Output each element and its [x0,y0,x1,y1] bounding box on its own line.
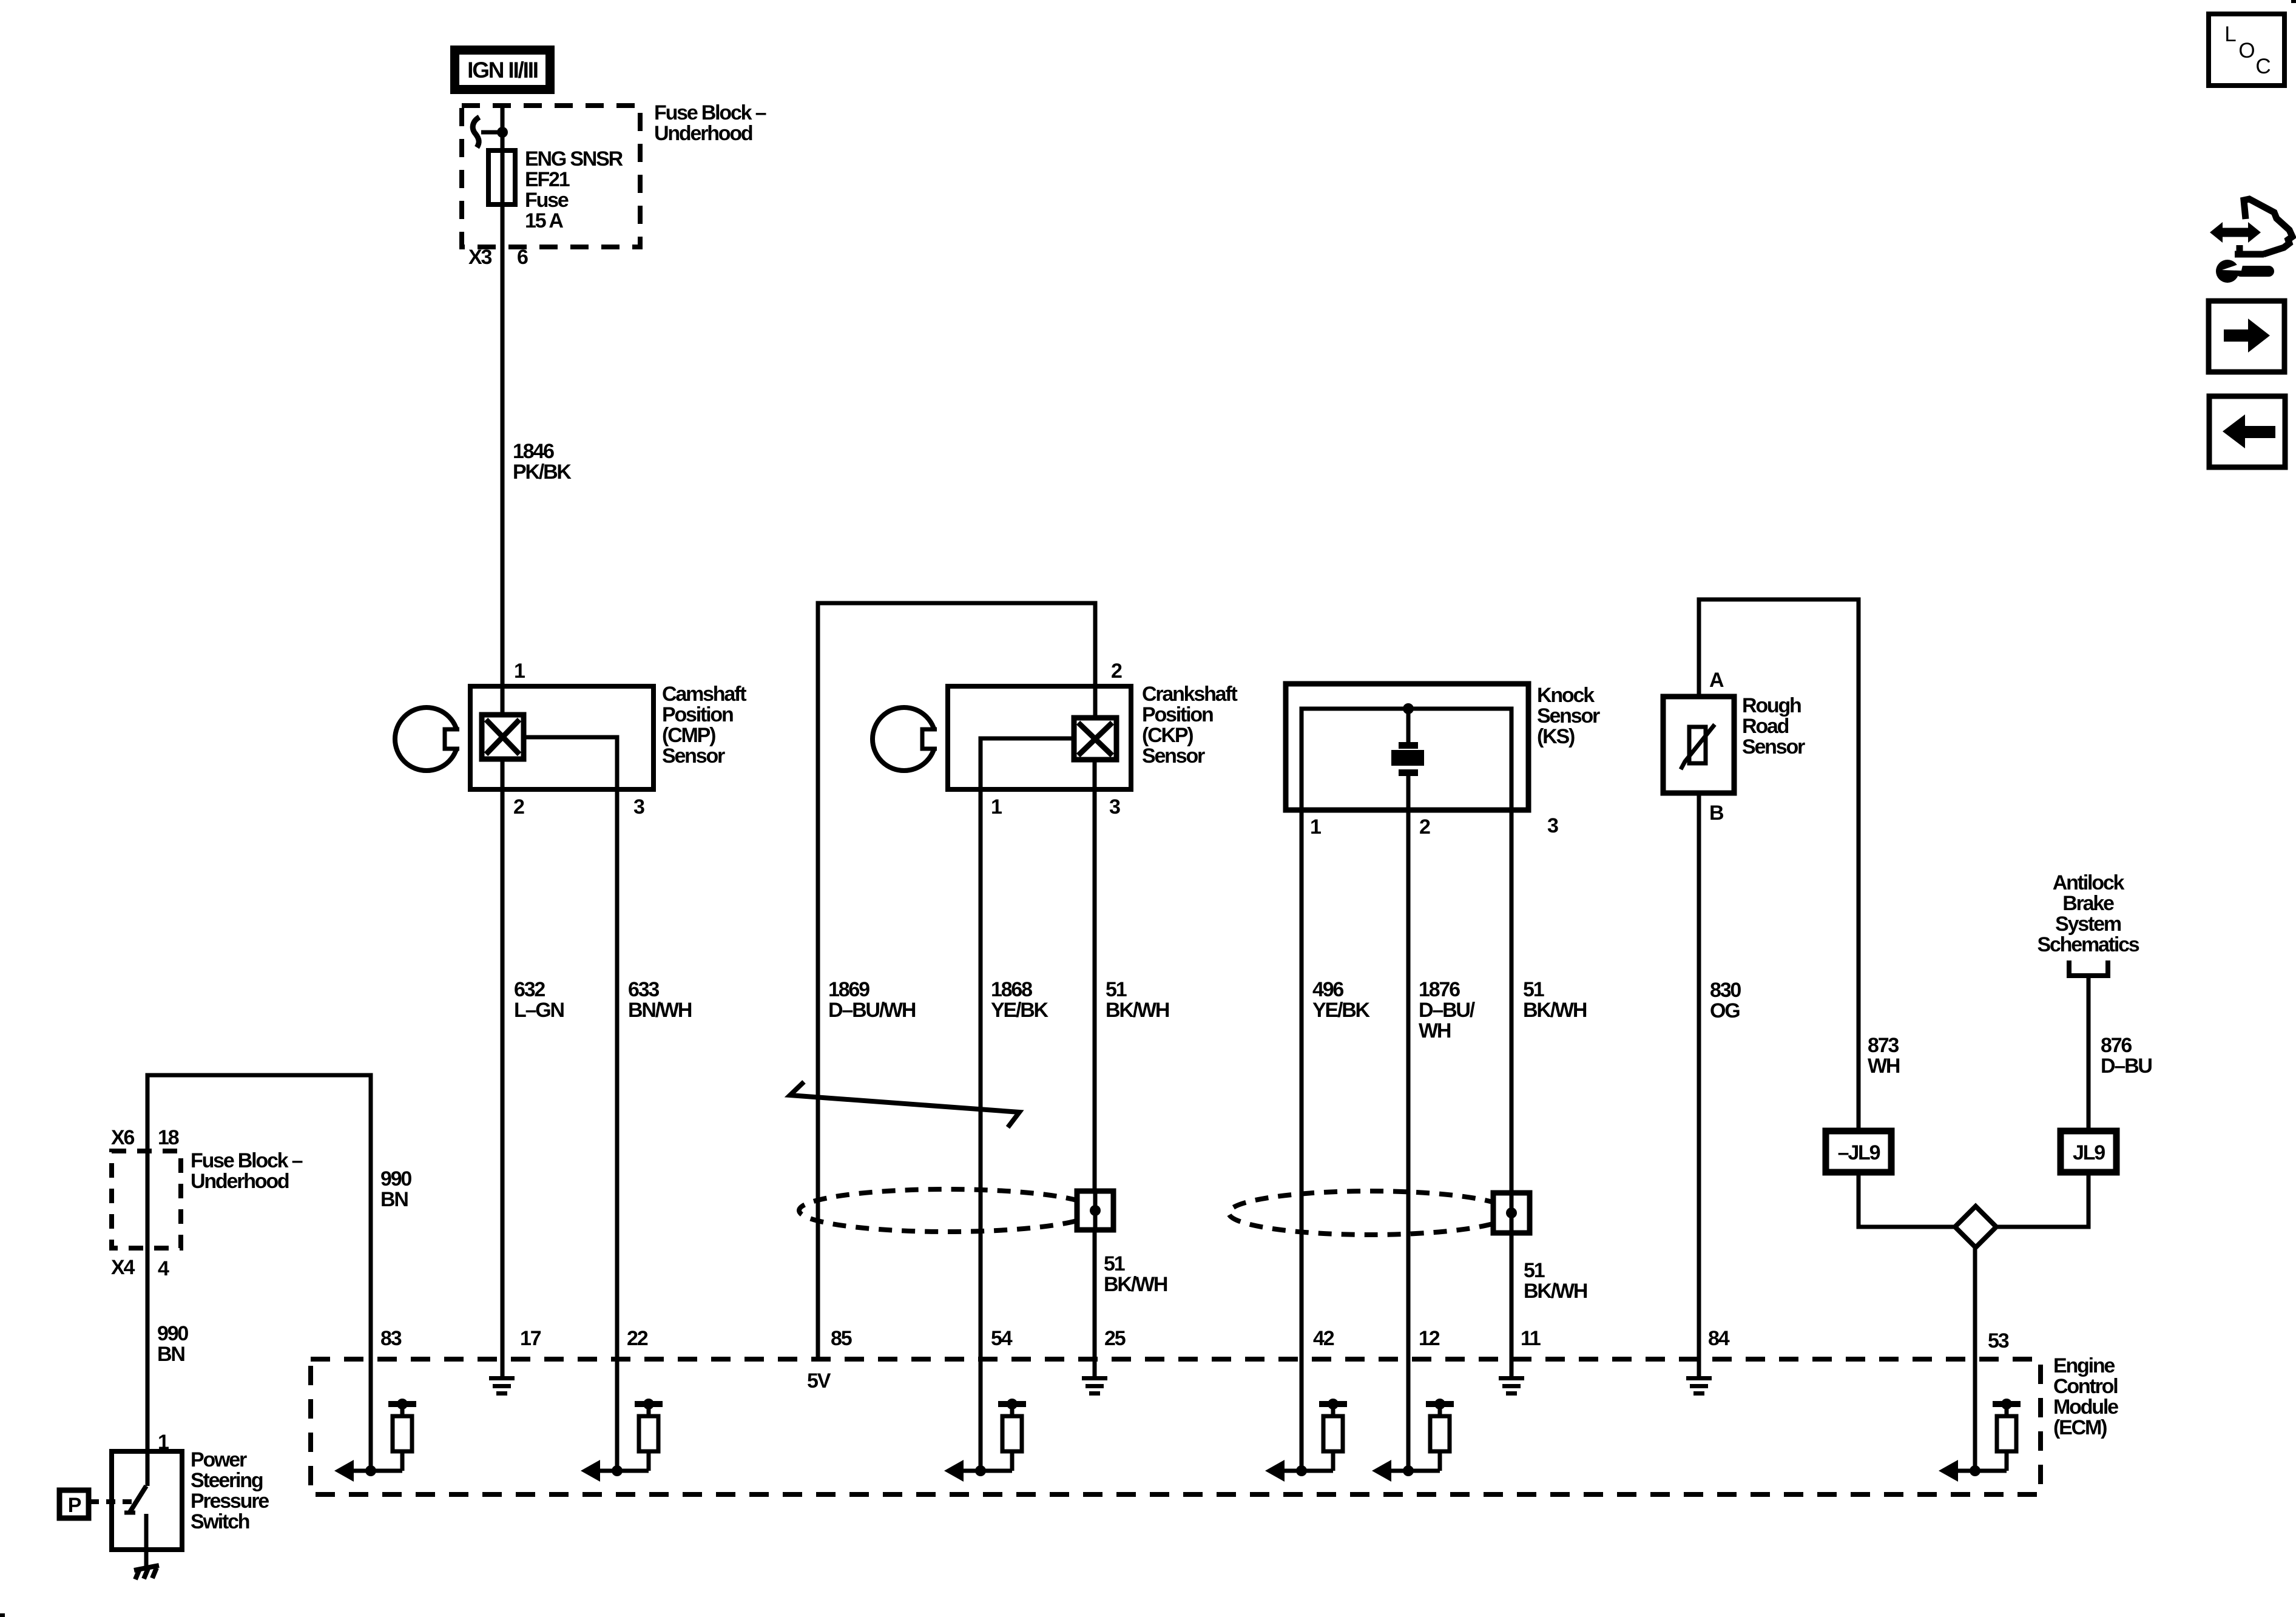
svg-text:Fuse Block –: Fuse Block – [654,101,766,124]
svg-text:51: 51 [1524,1259,1545,1282]
ECM input cell pin 83 [334,1399,416,1482]
option box -JL9 [1826,1131,1891,1172]
knock sensor box [1286,684,1528,810]
wire 51 BK/WH : CKP pin 3 to ECM 25 [1093,760,1097,1377]
svg-text:X4: X4 [111,1256,135,1279]
svg-text:IGN II/III: IGN II/III [467,58,538,83]
svg-text:EF21: EF21 [525,168,570,191]
svg-text:83: 83 [380,1327,402,1350]
svg-text:ENG SNSR: ENG SNSR [525,147,623,170]
svg-text:2: 2 [1111,660,1122,683]
wire below JL9 to diamond splice [1995,1172,2088,1227]
CMP pickup coil X-box [482,715,524,759]
svg-text:JL9: JL9 [2073,1141,2105,1164]
svg-text:YE/BK: YE/BK [1312,999,1371,1022]
shield drain box on 51 BK/WH (KS) [1493,1193,1530,1233]
svg-text:Sensor: Sensor [1537,704,1600,727]
svg-text:–JL9: –JL9 [1838,1141,1880,1164]
ECM input cell pin 12 [1372,1399,1454,1482]
svg-text:3: 3 [633,795,644,819]
shield drain box on 51 BK/WH [1077,1191,1113,1230]
LOC navigation box [2209,14,2284,86]
wire 876 D-BU : off-page connector to JL9 [2087,978,2091,1131]
svg-text:Antilock: Antilock [2053,871,2125,894]
wire 632 L-GN : CMP pin 2 to ECM 17 [501,759,505,1377]
forward arrow box [2209,301,2284,372]
diamond splice [1955,1206,1996,1247]
svg-text:17: 17 [520,1327,541,1350]
corner mark [2291,0,2296,3]
svg-text:1868: 1868 [991,978,1032,1001]
svg-text:BK/WH: BK/WH [1524,1280,1587,1303]
bus tap curl [473,117,479,147]
svg-text:WH: WH [1419,1019,1451,1042]
svg-text:Sensor: Sensor [1142,744,1205,768]
fuse block underhood dashed box (top) [462,106,640,247]
svg-text:15 A: 15 A [525,209,563,232]
switch blade [130,1486,146,1512]
fuse ENG SNSR EF21 [488,150,515,204]
wire diamond to ECM 53 [1973,1244,1977,1471]
piezo element [1391,703,1424,776]
wire below -JL9 to diamond splice [1859,1172,1956,1227]
svg-text:53: 53 [1988,1329,2009,1352]
svg-text:Underhood: Underhood [654,122,752,145]
svg-text:1846: 1846 [513,440,554,463]
engine control module dashed box [311,1359,2041,1494]
ECM input cell pin 22 [581,1399,663,1482]
svg-text:990: 990 [380,1167,411,1190]
ECM input cell pin 53 [1939,1399,2021,1482]
svg-text:830: 830 [1710,979,1741,1002]
shield ellipse around KS wires [1229,1191,1511,1235]
svg-text:1876: 1876 [1419,978,1460,1001]
svg-text:System: System [2055,913,2121,936]
wire 1869 D-BU/WH : CKP pin 2 loop to ECM 85 [818,603,1095,1359]
svg-text:633: 633 [628,978,659,1001]
svg-text:Brake: Brake [2062,892,2114,915]
svg-text:2: 2 [1419,815,1430,839]
svg-text:632: 632 [514,978,545,1001]
ECM ground pin 17 [489,1376,515,1396]
ECM ground pin 11 [1499,1376,1524,1396]
svg-text:1869: 1869 [828,978,869,1001]
svg-text:Camshaft: Camshaft [662,683,746,706]
camshaft position sensor box [470,686,653,789]
svg-text:85: 85 [831,1327,852,1350]
P actuator box [59,1490,89,1518]
svg-text:11: 11 [1521,1327,1541,1350]
svg-text:3: 3 [1109,795,1120,819]
svg-text:D–BU/WH: D–BU/WH [828,999,916,1022]
svg-text:84: 84 [1708,1327,1730,1350]
svg-text:1: 1 [991,795,1002,819]
svg-text:Sensor: Sensor [662,744,725,768]
svg-text:873: 873 [1868,1034,1899,1057]
shield ellipse around CKP wires [799,1189,1095,1232]
svg-text:BK/WH: BK/WH [1523,999,1587,1022]
power steering pressure switch box [112,1451,182,1550]
svg-text:(CKP): (CKP) [1142,724,1193,747]
svg-text:496: 496 [1312,978,1343,1001]
wire 633 BN/WH : CMP pin 3 to ECM 22 [524,737,617,1471]
svg-text:Engine: Engine [2053,1354,2115,1377]
wire 990 BN loop : switch pin 1 up over to ECM 83 [147,1075,371,1486]
wire 1868 YE/BK : CKP pin 1 to ECM 54 [981,738,1074,1471]
svg-text:(CMP): (CMP) [662,724,715,747]
svg-text:18: 18 [158,1126,179,1149]
option box JL9 [2061,1131,2116,1172]
svg-text:51: 51 [1104,1252,1125,1275]
svg-text:Steering: Steering [191,1469,263,1492]
svg-text:876: 876 [2101,1034,2132,1057]
back arrow box [2209,396,2285,467]
crankshaft position sensor box [948,686,1131,789]
dashed actuator line [90,1499,135,1504]
wire 873 WH : rough road sensor A loop to -JL9 [1699,599,1859,1131]
svg-text:12: 12 [1419,1327,1440,1350]
svg-text:(KS): (KS) [1537,725,1575,748]
CKP pickup coil X-box [1074,718,1116,760]
svg-text:Fuse Block –: Fuse Block – [191,1149,303,1172]
ECM input cell pin 42 [1265,1399,1347,1482]
junction dot [497,127,508,138]
svg-text:51: 51 [1523,978,1544,1001]
svg-text:X3: X3 [468,246,491,269]
svg-text:54: 54 [991,1327,1013,1350]
wire 1846 PK/BK : fuse to CMP pin 1 [501,103,505,715]
svg-text:BK/WH: BK/WH [1106,999,1169,1022]
off-page connector bracket [2069,960,2108,976]
svg-text:990: 990 [157,1322,188,1345]
svg-text:51: 51 [1106,978,1127,1001]
svg-text:O: O [2238,39,2255,62]
svg-text:4: 4 [158,1257,169,1280]
svg-text:Power: Power [191,1448,247,1471]
svg-text:Position: Position [1142,703,1213,726]
svg-text:X6: X6 [111,1126,134,1149]
ECM input cell pin 54 [944,1399,1026,1482]
page corner mark bottom-left [0,1613,5,1617]
svg-text:Road: Road [1742,715,1789,738]
svg-text:YE/BK: YE/BK [991,999,1049,1022]
svg-text:Switch: Switch [191,1510,249,1533]
svg-text:3: 3 [1547,814,1558,837]
svg-text:BN: BN [380,1188,408,1211]
svg-text:Pressure: Pressure [191,1490,269,1513]
svg-text:Sensor: Sensor [1742,735,1805,758]
svg-text:OG: OG [1710,999,1740,1022]
svg-text:PK/BK: PK/BK [513,461,572,484]
wire 830 OG : rough road sensor B to ECM 84 [1697,793,1701,1377]
svg-text:1: 1 [514,660,525,683]
svg-text:Fuse: Fuse [525,189,569,212]
ECM ground pin 25 [1082,1376,1107,1396]
diagnostic icon : car outline with double arrow and wrench [2210,199,2292,283]
svg-text:Underhood: Underhood [191,1170,289,1193]
svg-text:1: 1 [1310,815,1321,839]
ECM ground pin 84 [1686,1376,1712,1396]
svg-text:Rough: Rough [1742,694,1801,717]
svg-text:22: 22 [627,1327,648,1350]
svg-text:D–BU/: D–BU/ [1419,999,1476,1022]
chassis ground [134,1565,159,1579]
svg-text:2: 2 [513,795,524,819]
rough road sensor box [1663,697,1734,793]
svg-text:42: 42 [1313,1327,1334,1350]
svg-text:Position: Position [662,703,733,726]
svg-text:L: L [2224,22,2236,46]
CMP reluctor circle [395,707,458,771]
svg-text:5V: 5V [807,1369,831,1393]
svg-text:WH: WH [1868,1055,1900,1078]
variable resistor symbol [1689,727,1706,763]
knock sensor internal loop + wires 496 and 51 [1302,709,1511,1471]
svg-text:6: 6 [517,246,528,269]
svg-text:A: A [1709,669,1724,692]
svg-text:(ECM): (ECM) [2053,1416,2107,1439]
svg-text:Control: Control [2053,1375,2118,1398]
switch bottom contact stub [144,1514,149,1566]
svg-text:P: P [68,1494,81,1517]
svg-text:L–GN: L–GN [514,999,564,1022]
wire 1876 D-BU/WH : KS pin 2 to ECM 12 [1406,709,1411,742]
svg-text:Schematics: Schematics [2038,933,2139,956]
svg-text:BK/WH: BK/WH [1104,1273,1167,1296]
svg-text:BN/WH: BN/WH [628,999,692,1022]
svg-text:Knock: Knock [1537,684,1595,707]
svg-text:25: 25 [1104,1327,1126,1350]
svg-text:C: C [2255,55,2271,78]
svg-text:Module: Module [2053,1396,2118,1419]
CKP reluctor circle [873,707,936,771]
svg-text:BN: BN [157,1343,184,1366]
svg-text:Crankshaft: Crankshaft [1142,683,1237,706]
IGN II/III power label box [450,46,555,94]
svg-text:D–BU: D–BU [2101,1055,2152,1078]
svg-text:B: B [1709,802,1724,825]
fuse block underhood dashed box (X6/X4) [112,1151,181,1248]
